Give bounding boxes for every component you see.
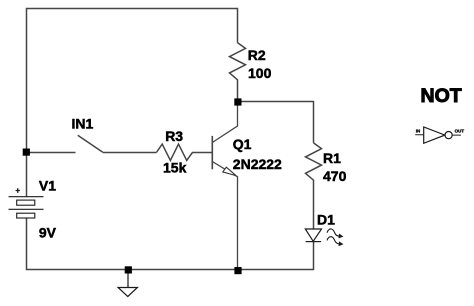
svg-text:470: 470 [323,168,347,184]
svg-text:OUT: OUT [455,129,465,134]
svg-text:9V: 9V [39,225,57,241]
svg-text:100: 100 [248,65,272,81]
svg-text:R2: R2 [248,47,266,63]
svg-text:15k: 15k [163,160,187,176]
svg-text:NOT: NOT [421,85,462,107]
svg-text:IN: IN [416,129,421,134]
svg-text:D1: D1 [317,212,335,228]
svg-text:Q1: Q1 [233,136,252,152]
svg-text:2N2222: 2N2222 [233,156,282,172]
svg-text:R1: R1 [323,150,341,166]
svg-text:R3: R3 [165,128,183,144]
svg-text:IN1: IN1 [72,116,94,132]
svg-text:V1: V1 [39,178,56,194]
